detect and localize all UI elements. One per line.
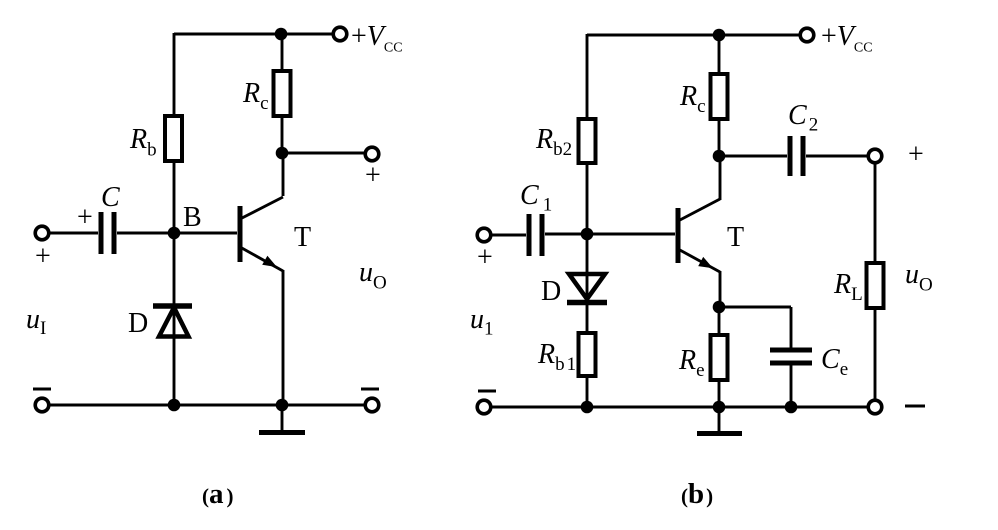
svg-text:T: T [727,222,744,253]
svg-text:C: C [101,182,120,213]
svg-text:B: B [183,202,202,233]
svg-text:+VCC: +VCC [821,21,873,56]
svg-text:+: + [35,241,51,272]
svg-text:uI: uI [26,304,46,339]
svg-text:C1: C1 [520,180,552,216]
svg-text:RL: RL [833,269,863,305]
svg-text:D: D [541,276,561,307]
svg-text:T: T [294,222,311,253]
svg-text:C2: C2 [788,100,818,136]
svg-text:u1: u1 [470,304,494,340]
svg-text:(b): (b) [681,478,713,510]
svg-text:D: D [128,308,148,339]
svg-text:+: + [908,139,924,170]
svg-text:(a): (a) [202,478,234,510]
svg-text:+VCC: +VCC [351,21,403,56]
svg-text:Rb1: Rb1 [537,339,578,375]
svg-text:Rc: Rc [242,78,269,114]
svg-text:+: + [477,242,493,273]
svg-text:Rb2: Rb2 [535,124,572,160]
svg-text:+: + [365,160,381,191]
svg-text:Rb: Rb [129,124,157,161]
svg-text:uO: uO [905,259,933,296]
svg-text:Ce: Ce [821,344,848,380]
svg-text:Rc: Rc [679,81,706,117]
svg-text:+: + [77,202,93,233]
svg-text:Re: Re [678,345,705,381]
svg-text:uO: uO [359,257,387,294]
